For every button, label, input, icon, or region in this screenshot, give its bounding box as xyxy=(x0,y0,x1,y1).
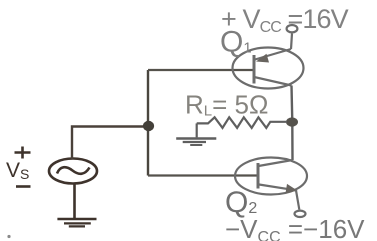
node junction dot at source/bus xyxy=(143,121,154,131)
node label plus sign of Vs xyxy=(15,147,31,159)
wire left bus vertical xyxy=(147,70,149,176)
wire Q2 emitter to -Vcc terminal xyxy=(296,190,299,209)
wire source top to left bus xyxy=(72,127,148,160)
stray ink speck xyxy=(7,235,10,238)
ground of RL xyxy=(176,139,216,146)
wire Q1 base xyxy=(148,69,254,71)
resistor RL xyxy=(197,117,287,137)
svg-text:−VCC =−16V: −VCC =−16V xyxy=(225,214,365,241)
terminal +Vcc xyxy=(287,25,298,32)
node junction dot at RL/right bus xyxy=(286,117,298,126)
terminal -Vcc xyxy=(295,211,306,217)
wire source bottom to ground xyxy=(73,184,76,219)
wire Q1 collector to +Vcc terminal xyxy=(291,34,292,50)
svg-text:RL= 5Ω: RL= 5Ω xyxy=(185,90,268,120)
transistor Q2 xyxy=(235,158,307,195)
svg-text:VS: VS xyxy=(6,159,29,182)
wire Q2 base xyxy=(148,174,258,176)
transistor Q1 xyxy=(233,48,304,89)
node label minus sign of Vs xyxy=(16,185,31,188)
ground under source xyxy=(57,219,96,226)
source VS sine generator xyxy=(49,159,97,184)
wire right bus Q1 emitter to Q2 collector xyxy=(292,86,293,161)
